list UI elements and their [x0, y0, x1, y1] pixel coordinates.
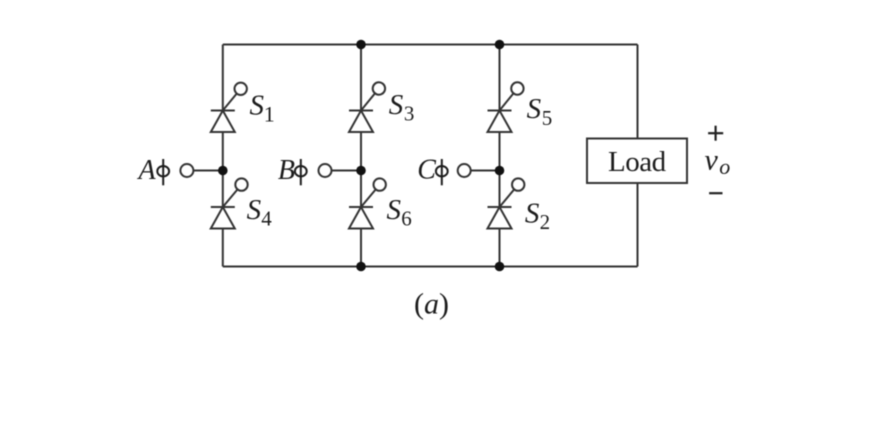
svg-text:4: 4	[261, 206, 272, 230]
svg-text:S: S	[389, 89, 404, 121]
svg-text:1: 1	[264, 102, 275, 127]
svg-text:A: A	[137, 155, 157, 186]
svg-text:S: S	[387, 194, 402, 226]
svg-text:C: C	[417, 155, 436, 186]
svg-text:3: 3	[404, 101, 415, 125]
svg-text:5: 5	[542, 106, 553, 130]
svg-text:B: B	[278, 155, 295, 186]
svg-text:v: v	[705, 143, 719, 176]
svg-text:S: S	[250, 89, 265, 121]
svg-text:(a): (a)	[414, 288, 449, 321]
svg-text:S: S	[527, 93, 542, 125]
svg-text:Load: Load	[608, 146, 667, 178]
svg-text:S: S	[525, 198, 540, 230]
svg-text:6: 6	[401, 206, 412, 230]
svg-text:S: S	[247, 194, 262, 226]
svg-text:2: 2	[540, 210, 551, 234]
svg-text:o: o	[719, 154, 730, 179]
